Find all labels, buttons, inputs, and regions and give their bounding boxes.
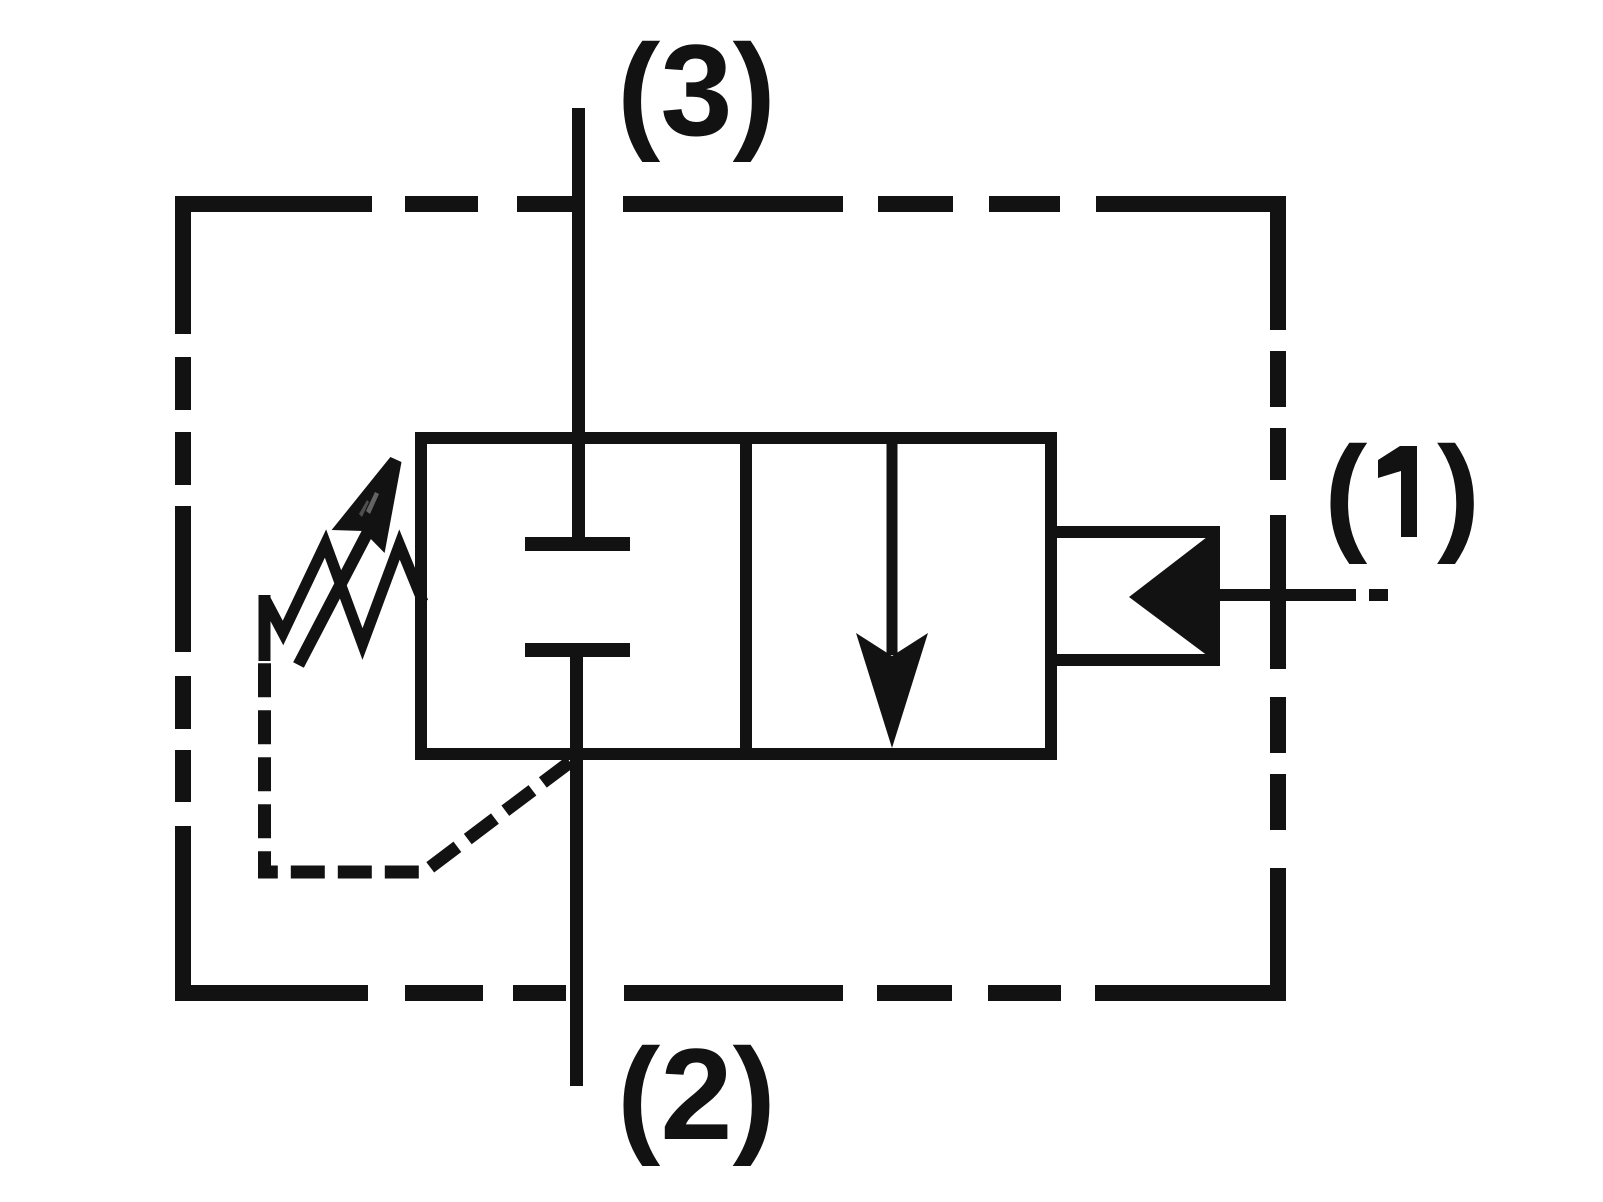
adjustable spring zigzag — [265, 544, 424, 645]
orifice plate lower — [525, 643, 630, 657]
enclosure dashed border right — [1270, 196, 1286, 1001]
body divider — [740, 438, 752, 754]
label (1) digit — [1378, 446, 1417, 537]
svg-text:(2): (2) — [617, 1021, 776, 1167]
adjustment arrowhead sheen — [366, 492, 379, 514]
check valve housing — [1051, 532, 1214, 660]
check valve poppet — [1129, 527, 1220, 665]
valve body — [421, 438, 1051, 754]
svg-text:(3): (3) — [617, 17, 776, 163]
port line (3) — [572, 108, 585, 551]
svg-text:(: ( — [1324, 419, 1368, 565]
adjustment arrowhead — [332, 457, 402, 553]
enclosure dashed border left — [175, 196, 191, 1001]
enclosure dashed border top — [176, 196, 1286, 212]
port line (2) — [570, 651, 583, 1086]
enclosure dashed border bottom — [175, 985, 1286, 1001]
pilot dashed line — [265, 661, 571, 872]
flow path arrow shaft — [887, 438, 898, 655]
orifice plate upper — [525, 537, 630, 551]
spring end stub — [259, 595, 271, 661]
svg-text:): ) — [1437, 419, 1480, 565]
flow path arrowhead — [856, 633, 928, 748]
adjustment arrow shaft — [299, 524, 373, 665]
port line (1) — [1218, 589, 1388, 601]
